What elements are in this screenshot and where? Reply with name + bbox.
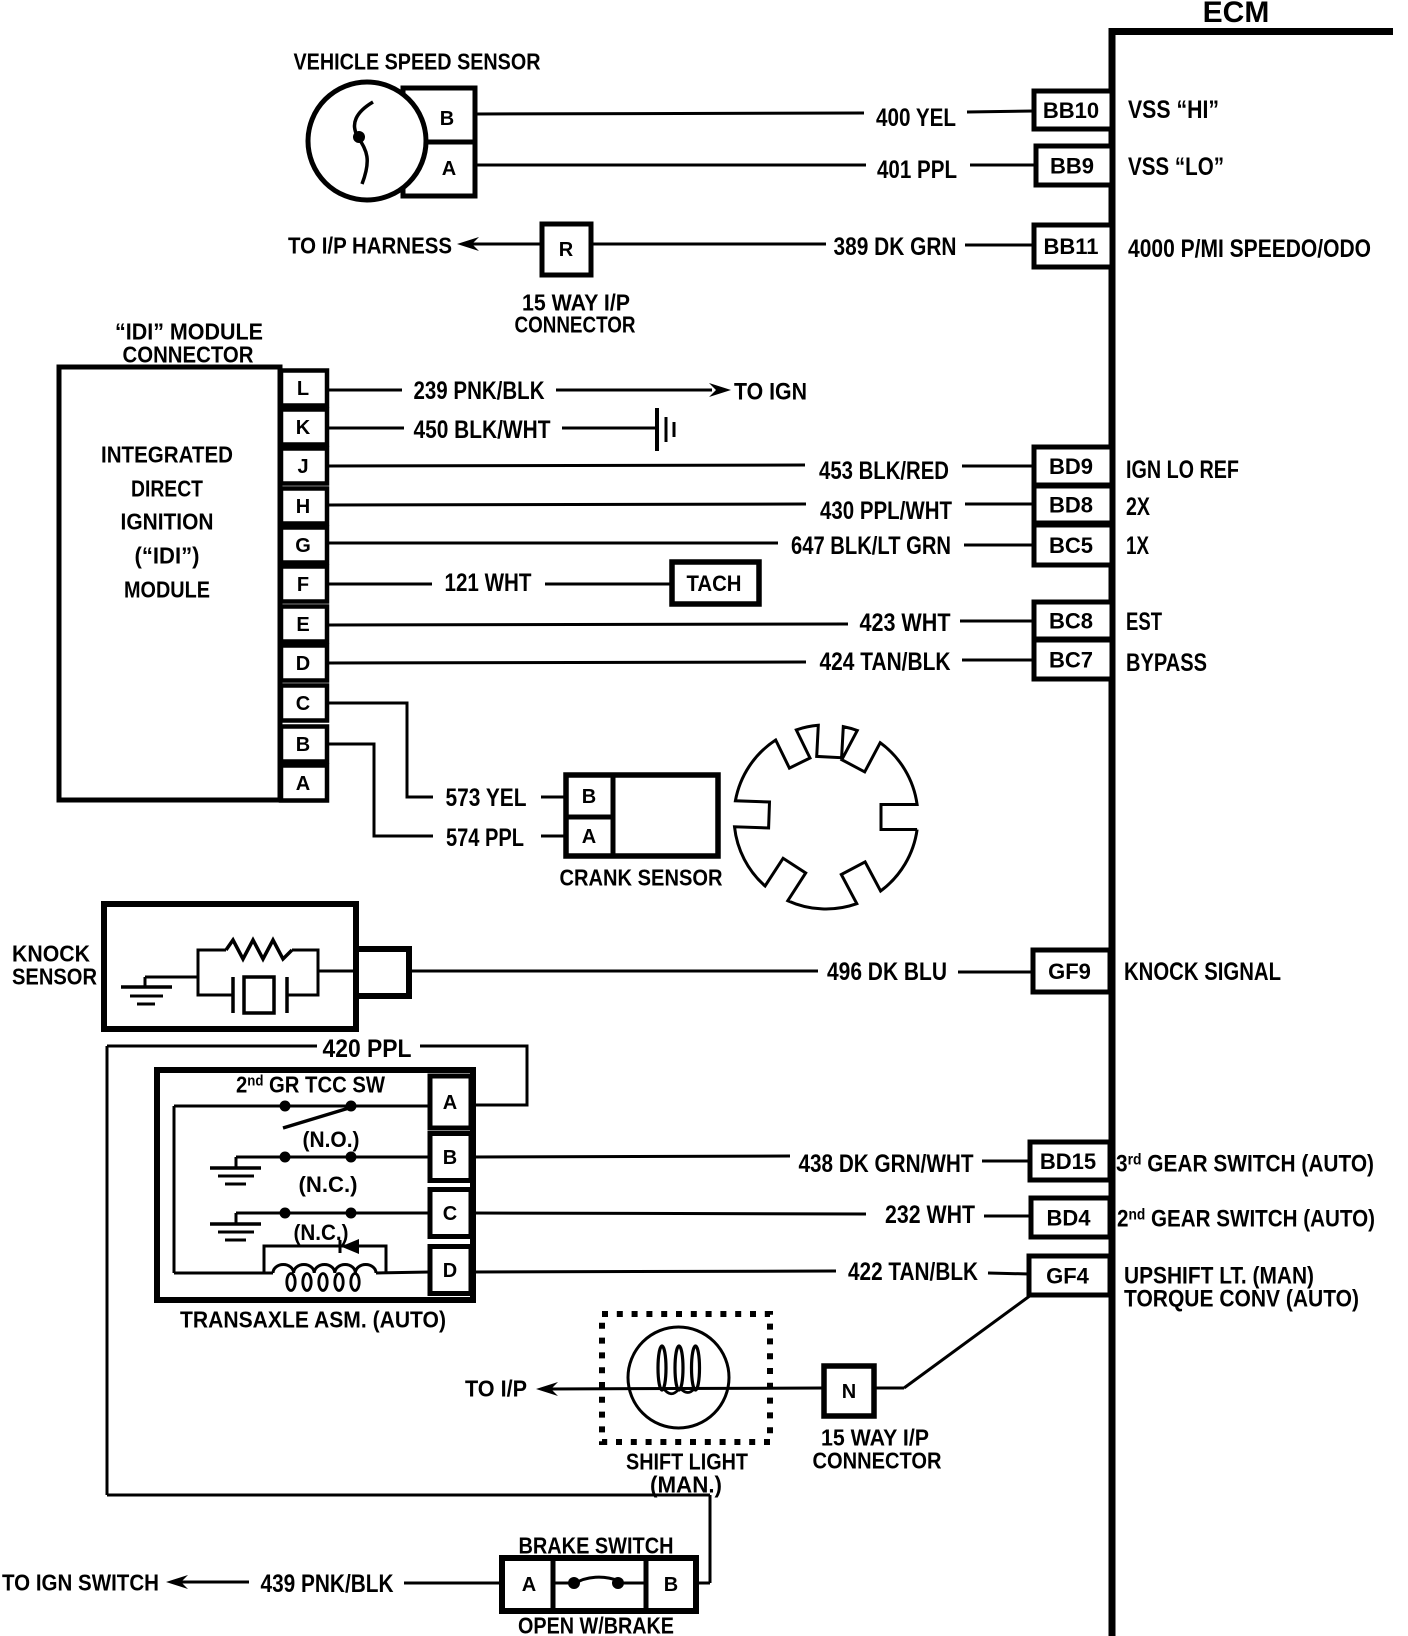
svg-text:239 PNK/BLK: 239 PNK/BLK [414,377,545,405]
svg-text:CONNECTOR: CONNECTOR [813,1447,942,1473]
svg-text:3rd GEAR SWITCH (AUTO): 3rd GEAR SWITCH (AUTO) [1116,1151,1374,1178]
svg-text:B: B [443,1147,457,1169]
svg-text:TO I/P HARNESS: TO I/P HARNESS [288,232,452,258]
svg-text:BC7: BC7 [1049,647,1093,672]
svg-text:4000 P/MI SPEEDO/ODO: 4000 P/MI SPEEDO/ODO [1128,235,1371,263]
svg-text:401 PPL: 401 PPL [877,156,957,184]
svg-text:VSS “LO”: VSS “LO” [1128,153,1224,181]
svg-text:CRANK SENSOR: CRANK SENSOR [560,864,723,890]
svg-text:R: R [559,239,574,261]
svg-text:TO I/P: TO I/P [465,1375,527,1401]
svg-text:430 PPL/WHT: 430 PPL/WHT [820,497,952,525]
svg-text:B: B [582,786,596,808]
svg-text:(N.C.): (N.C.) [299,1172,358,1197]
svg-text:BD15: BD15 [1040,1149,1096,1174]
svg-text:232 WHT: 232 WHT [885,1201,975,1229]
svg-text:TACH: TACH [687,571,742,596]
svg-text:H: H [296,496,310,518]
svg-text:400 YEL: 400 YEL [876,104,956,132]
svg-text:E: E [296,614,309,636]
svg-text:1X: 1X [1126,532,1149,560]
svg-text:BD8: BD8 [1049,492,1093,517]
svg-text:121 WHT: 121 WHT [445,569,532,597]
svg-text:D: D [296,653,310,675]
svg-text:SENSOR: SENSOR [12,963,97,989]
svg-text:F: F [297,574,309,596]
svg-text:BD9: BD9 [1049,454,1093,479]
svg-text:CONNECTOR: CONNECTOR [515,311,636,337]
svg-text:422 TAN/BLK: 422 TAN/BLK [848,1258,978,1286]
svg-text:N: N [842,1381,856,1403]
svg-text:(N.O.): (N.O.) [303,1127,360,1152]
svg-text:BB11: BB11 [1043,234,1098,259]
svg-text:K: K [296,417,311,439]
svg-text:CONNECTOR: CONNECTOR [123,341,254,367]
svg-text:(“IDI”): (“IDI”) [135,542,200,568]
svg-text:EST: EST [1126,608,1162,636]
svg-text:GF4: GF4 [1046,1263,1090,1288]
svg-text:A: A [582,826,596,848]
svg-text:573 YEL: 573 YEL [446,784,527,812]
svg-text:420 PPL: 420 PPL [323,1035,412,1063]
svg-text:574 PPL: 574 PPL [446,824,524,852]
svg-text:L: L [297,378,309,400]
svg-text:IGNITION: IGNITION [121,508,214,534]
svg-text:B: B [440,108,454,130]
svg-text:BC5: BC5 [1049,533,1093,558]
svg-text:B: B [664,1574,678,1596]
svg-text:OPEN W/BRAKE: OPEN W/BRAKE [518,1612,674,1636]
svg-text:647 BLK/LT GRN: 647 BLK/LT GRN [791,532,951,560]
svg-text:453 BLK/RED: 453 BLK/RED [819,457,949,485]
svg-text:TORQUE CONV (AUTO): TORQUE CONV (AUTO) [1124,1286,1359,1313]
svg-text:MODULE: MODULE [124,576,210,602]
svg-text:(MAN.): (MAN.) [650,1471,722,1497]
svg-text:424 TAN/BLK: 424 TAN/BLK [820,648,951,676]
svg-text:D: D [443,1260,457,1282]
svg-text:BYPASS: BYPASS [1126,649,1207,677]
svg-text:C: C [296,693,310,715]
svg-text:450 BLK/WHT: 450 BLK/WHT [414,416,551,444]
svg-text:496 DK BLU: 496 DK BLU [827,958,947,986]
svg-text:TO IGN SWITCH: TO IGN SWITCH [2,1569,159,1595]
svg-text:BD4: BD4 [1046,1205,1091,1230]
svg-text:IGN LO REF: IGN LO REF [1126,456,1239,484]
svg-text:2X: 2X [1126,493,1150,521]
svg-text:BC8: BC8 [1049,608,1093,633]
svg-text:INTEGRATED: INTEGRATED [101,441,233,467]
svg-text:VEHICLE SPEED SENSOR: VEHICLE SPEED SENSOR [294,48,541,74]
svg-text:BB9: BB9 [1050,153,1094,178]
svg-text:BB10: BB10 [1043,98,1099,123]
svg-text:A: A [522,1574,536,1596]
svg-text:DIRECT: DIRECT [131,475,203,501]
svg-text:B: B [296,734,310,756]
svg-text:TRANSAXLE ASM. (AUTO): TRANSAXLE ASM. (AUTO) [180,1306,446,1332]
svg-text:VSS “HI”: VSS “HI” [1128,96,1219,124]
svg-text:A: A [296,773,310,795]
svg-text:A: A [443,1092,457,1114]
svg-text:KNOCK SIGNAL: KNOCK SIGNAL [1124,958,1281,986]
svg-text:A: A [442,158,456,180]
svg-text:439 PNK/BLK: 439 PNK/BLK [261,1570,394,1598]
svg-text:BRAKE SWITCH: BRAKE SWITCH [519,1532,674,1558]
svg-text:389 DK GRN: 389 DK GRN [834,233,957,261]
svg-text:C: C [443,1203,457,1225]
svg-text:2nd GEAR SWITCH (AUTO): 2nd GEAR SWITCH (AUTO) [1117,1206,1375,1233]
svg-text:GF9: GF9 [1048,959,1091,984]
svg-text:G: G [295,535,311,557]
svg-text:J: J [297,456,308,478]
svg-text:ECM: ECM [1203,0,1270,29]
svg-text:423 WHT: 423 WHT [860,609,951,637]
svg-text:TO IGN: TO IGN [734,379,807,406]
svg-text:438 DK GRN/WHT: 438 DK GRN/WHT [799,1150,974,1178]
